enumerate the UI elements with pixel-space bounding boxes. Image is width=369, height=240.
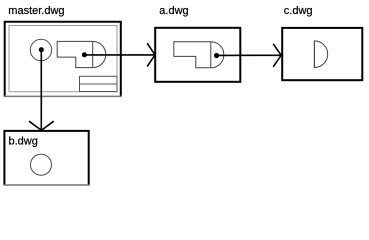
svg-text:b.dwg: b.dwg bbox=[9, 135, 38, 147]
svg-text:master.dwg: master.dwg bbox=[8, 5, 64, 17]
svg-text:a.dwg: a.dwg bbox=[159, 5, 188, 17]
svg-text:c.dwg: c.dwg bbox=[284, 5, 313, 17]
